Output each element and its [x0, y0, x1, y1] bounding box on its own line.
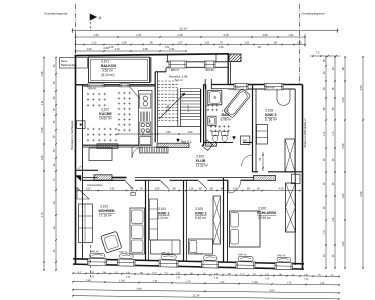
svg-text:Brandwand zu Nachbargeb.: Brandwand zu Nachbargeb. [71, 120, 74, 150]
svg-text:1.13: 1.13 [240, 274, 245, 276]
svg-text:.88: .88 [209, 188, 213, 191]
svg-text:1.13: 1.13 [92, 42, 97, 45]
svg-text:1.38: 1.38 [142, 47, 148, 51]
svg-text:.98: .98 [279, 274, 283, 276]
svg-text:BALKON: BALKON [101, 64, 116, 68]
svg-text:1.01: 1.01 [265, 274, 270, 276]
svg-text:3.43: 3.43 [110, 188, 115, 191]
svg-text:6.08 m²: 6.08 m² [221, 118, 232, 122]
svg-text:1.38: 1.38 [297, 42, 302, 45]
svg-text:Grundstücksgrenze: Grundstücksgrenze [44, 12, 68, 16]
svg-text:1.01: 1.01 [304, 275, 309, 277]
svg-text:1.38: 1.38 [320, 282, 325, 285]
svg-text:1.065: 1.065 [252, 281, 259, 284]
svg-text:1.01: 1.01 [90, 272, 95, 274]
svg-text:.76: .76 [131, 191, 135, 193]
svg-text:.51: .51 [165, 273, 169, 275]
svg-text:.51: .51 [253, 274, 257, 276]
svg-text:Balkonanlage: Balkonanlage [61, 63, 77, 67]
svg-text:F: F [210, 120, 212, 124]
svg-text:5.49: 5.49 [41, 127, 44, 132]
svg-text:1.38: 1.38 [109, 46, 114, 49]
svg-text:BRH 86: BRH 86 [206, 70, 215, 72]
svg-text:WOHNEN: WOHNEN [99, 209, 115, 213]
svg-text:1.26: 1.26 [90, 276, 95, 278]
svg-text:3.102: 3.102 [101, 108, 109, 112]
svg-text:.80: .80 [172, 188, 176, 191]
svg-text:13.32 m²: 13.32 m² [196, 164, 209, 168]
svg-text:1.26: 1.26 [189, 188, 194, 191]
svg-text:.51: .51 [115, 272, 119, 274]
svg-text:KIND 1: KIND 1 [158, 212, 170, 216]
svg-text:.98: .98 [342, 67, 345, 71]
svg-text:1.13: 1.13 [333, 131, 335, 136]
svg-text:.80: .80 [198, 188, 202, 191]
svg-text:3.18: 3.18 [223, 33, 229, 37]
svg-text:FLUR: FLUR [196, 159, 206, 163]
svg-text:3.95: 3.95 [269, 288, 275, 292]
svg-text:.41: .41 [331, 275, 335, 277]
svg-text:1.56: 1.56 [262, 33, 268, 37]
svg-text:1.03: 1.03 [86, 188, 91, 191]
svg-text:.75: .75 [318, 275, 322, 277]
svg-text:11.66 m²: 11.66 m² [265, 118, 277, 122]
svg-text:3.74: 3.74 [41, 212, 44, 217]
svg-text:2.41: 2.41 [136, 33, 142, 37]
svg-text:3.103: 3.103 [100, 205, 108, 209]
svg-text:1.08: 1.08 [41, 155, 44, 160]
svg-text:1.01: 1.01 [205, 42, 210, 45]
svg-text:BRH 98: BRH 98 [267, 87, 276, 89]
svg-text:.85: .85 [260, 157, 262, 161]
svg-text:1.61: 1.61 [288, 33, 294, 37]
svg-text:.96: .96 [273, 42, 277, 45]
svg-text:BRH 41: BRH 41 [89, 89, 98, 91]
svg-text:1.28: 1.28 [122, 42, 127, 45]
svg-text:.14: .14 [78, 272, 82, 274]
svg-text:BAD: BAD [222, 113, 230, 117]
svg-text:14.60 m²: 14.60 m² [99, 117, 112, 121]
svg-text:1.29: 1.29 [186, 280, 191, 283]
svg-text:1.065: 1.065 [119, 279, 126, 282]
svg-text:.98: .98 [190, 273, 194, 275]
svg-text:1.01: 1.01 [245, 42, 250, 45]
svg-text:3.101: 3.101 [101, 60, 109, 64]
svg-text:1.26: 1.26 [176, 277, 181, 279]
svg-text:5.94: 5.94 [359, 191, 363, 197]
svg-text:1.29: 1.29 [287, 281, 292, 284]
svg-text:1.27: 1.27 [178, 42, 183, 45]
svg-text:9.14 m²: 9.14 m² [158, 216, 169, 220]
svg-text:1.13: 1.13 [324, 131, 326, 136]
svg-text:1.13: 1.13 [152, 273, 157, 275]
svg-text:17.16 m²: 17.16 m² [99, 214, 112, 218]
svg-text:.86: .86 [228, 274, 232, 276]
svg-text:1.38: 1.38 [219, 46, 224, 49]
svg-text:1.01: 1.01 [176, 273, 181, 275]
svg-text:1.06: 1.06 [166, 131, 171, 134]
svg-text:BRH 46: BRH 46 [277, 255, 286, 257]
svg-text:1.92: 1.92 [342, 241, 345, 246]
svg-text:3.52 m²: 3.52 m² [102, 68, 113, 72]
svg-text:5.16 m²: 5.16 m² [195, 216, 206, 220]
svg-text:12.14: 12.14 [192, 293, 199, 297]
svg-text:A: A [99, 15, 102, 20]
svg-text:BRH 46: BRH 46 [119, 252, 128, 254]
svg-text:.98: .98 [103, 272, 107, 274]
svg-text:1.01: 1.01 [214, 273, 219, 275]
svg-text:12.14: 12.14 [179, 27, 187, 31]
svg-text:1.96: 1.96 [333, 217, 335, 222]
svg-text:3.104: 3.104 [158, 207, 166, 211]
svg-text:1.01: 1.01 [233, 188, 238, 191]
svg-text:4.96: 4.96 [153, 280, 158, 283]
svg-text:BRH 87: BRH 87 [171, 70, 180, 72]
svg-text:.26: .26 [139, 188, 143, 191]
svg-text:1.30: 1.30 [86, 47, 92, 51]
svg-text:1.42: 1.42 [93, 33, 99, 37]
svg-text:.86: .86 [140, 273, 144, 275]
svg-text:Grundstücksgrenze: Grundstücksgrenze [302, 12, 326, 16]
svg-text:1.19: 1.19 [114, 47, 120, 51]
svg-text:(6.24 m²): (6.24 m²) [102, 73, 115, 77]
svg-text:3.107: 3.107 [222, 109, 230, 113]
svg-text:KIND 2: KIND 2 [195, 212, 207, 216]
svg-text:1.01: 1.01 [126, 272, 131, 274]
svg-text:KÜCHE: KÜCHE [99, 111, 112, 116]
svg-text:2.60: 2.60 [155, 188, 160, 191]
svg-text:1.04: 1.04 [188, 131, 193, 134]
svg-text:BRH 73: BRH 73 [236, 87, 245, 89]
svg-text:4.89: 4.89 [136, 287, 142, 291]
svg-text:1.01: 1.01 [324, 229, 326, 234]
svg-text:5.2 m²: 5.2 m² [175, 78, 183, 82]
svg-text:1.11: 1.11 [41, 100, 44, 105]
svg-text:KIND 3: KIND 3 [265, 113, 277, 117]
svg-text:1.92: 1.92 [342, 193, 345, 198]
svg-text:BRH 46: BRH 46 [90, 251, 99, 253]
svg-text:1.38: 1.38 [220, 281, 225, 284]
svg-text:.26: .26 [256, 188, 260, 191]
svg-text:2.45: 2.45 [177, 33, 183, 37]
svg-text:2.08: 2.08 [342, 143, 345, 148]
svg-text:1.26: 1.26 [304, 279, 309, 281]
svg-text:3.109: 3.109 [196, 155, 204, 159]
svg-text:1.56: 1.56 [342, 97, 345, 102]
svg-text:2.41: 2.41 [169, 47, 175, 51]
svg-text:1.26: 1.26 [126, 277, 131, 279]
svg-text:.90: .90 [257, 46, 261, 49]
svg-text:.80: .80 [246, 188, 250, 191]
svg-text:3.105: 3.105 [195, 207, 203, 211]
svg-text:7.5: 7.5 [316, 51, 320, 55]
svg-text:1.26: 1.26 [265, 278, 270, 280]
svg-text:Bestand zu Wohnstraße 14: Bestand zu Wohnstraße 14 [304, 118, 307, 148]
svg-text:1.26: 1.26 [214, 278, 219, 280]
svg-text:.76: .76 [219, 42, 223, 45]
svg-text:18,5/27: 18,5/27 [188, 104, 190, 112]
svg-text:BRH 46: BRH 46 [238, 254, 247, 256]
svg-text:2.54: 2.54 [359, 85, 363, 91]
svg-text:4.30: 4.30 [279, 188, 284, 191]
svg-text:17 Stg: 17 Stg [167, 104, 170, 112]
svg-text:1.38: 1.38 [86, 279, 91, 282]
svg-text:3.106: 3.106 [258, 207, 266, 211]
svg-text:.51: .51 [203, 273, 207, 275]
svg-text:Neue: Neue [61, 59, 68, 63]
svg-text:.90: .90 [149, 42, 153, 45]
svg-text:1.51: 1.51 [165, 46, 170, 49]
svg-text:.51: .51 [292, 274, 296, 276]
svg-text:1.38: 1.38 [41, 71, 44, 76]
svg-text:3.108: 3.108 [265, 109, 273, 113]
